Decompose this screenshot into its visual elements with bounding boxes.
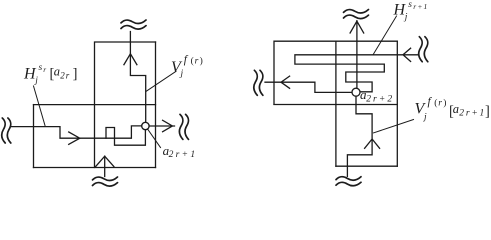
break symbol right (parens) xyxy=(419,37,428,62)
label a_2r+1 (left) xyxy=(163,143,198,160)
svg-text:r: r xyxy=(43,65,46,74)
pointer line label a2r+1 xyxy=(148,130,161,148)
svg-text:(: ( xyxy=(191,55,194,66)
svg-text:]: ] xyxy=(485,104,490,120)
arrowhead right on left strand xyxy=(69,132,80,144)
wire top strand from break to node xyxy=(356,21,358,89)
break symbol left (parens) xyxy=(254,70,263,95)
node a2r+1 circle xyxy=(142,122,149,129)
wire bottom strand entering box xyxy=(104,156,106,176)
svg-text:r: r xyxy=(438,98,442,108)
svg-text:2r+1: 2r+1 xyxy=(169,150,198,160)
wire bottom strand from node to break xyxy=(347,96,372,176)
svg-text:2r+1: 2r+1 xyxy=(459,109,486,119)
label H_j^{s_r}[a_2r] xyxy=(23,63,77,86)
label V_j^{f(r)} xyxy=(171,54,203,79)
svg-text:): ) xyxy=(200,55,203,66)
box shared right edge xyxy=(396,41,398,166)
svg-text:a: a xyxy=(54,65,60,79)
pointer line label V xyxy=(146,71,176,91)
wire left strand from break to node xyxy=(265,82,352,92)
pointer line label H' xyxy=(373,16,397,55)
break symbol right (parens) xyxy=(179,114,188,139)
box B1 upper (left diagram) left and top edges xyxy=(95,42,156,168)
node a2r+2 circle xyxy=(352,88,360,96)
horizontal divider H1 xyxy=(34,104,156,106)
svg-text:s: s xyxy=(39,63,43,73)
label V_j^{f(r)}[a_2r+1] xyxy=(415,96,490,123)
wire left strand from break to node xyxy=(11,126,142,138)
wire top strand from break to node xyxy=(130,32,145,123)
pointer line label V' xyxy=(374,120,414,133)
break symbol bottom (approx) xyxy=(336,177,361,186)
svg-text:): ) xyxy=(443,97,446,108)
arrowhead up on bottom strand xyxy=(96,156,114,166)
box shared right edge xyxy=(155,42,157,168)
break symbol top (approx) xyxy=(121,20,146,29)
arrowhead right xyxy=(163,120,173,131)
wire bottom loop from node xyxy=(106,128,145,146)
break symbol bottom (approx) xyxy=(93,177,118,186)
arrowhead up on top strand xyxy=(124,54,137,65)
box B2' bottom edge xyxy=(336,165,397,167)
svg-text:]: ] xyxy=(73,66,78,82)
svg-text:2r: 2r xyxy=(60,71,70,81)
box B1' bottom edge xyxy=(274,104,397,106)
label a_2r+2 (right) xyxy=(360,87,394,104)
arrowhead left on left strand xyxy=(281,76,290,88)
arrowhead left on right strand xyxy=(403,48,411,61)
wire node to right break xyxy=(149,125,174,127)
svg-text:2r+2: 2r+2 xyxy=(366,94,394,104)
svg-text:a: a xyxy=(453,102,459,116)
box B1' left and top edges xyxy=(274,41,397,104)
box bottom edge xyxy=(34,167,156,169)
label H_j^{s_r+1} xyxy=(393,0,429,22)
svg-text:s: s xyxy=(408,0,412,10)
wire right strand from break through boxes to node xyxy=(295,55,418,92)
arrowhead up on top strand xyxy=(350,21,364,33)
pointer line label H xyxy=(34,86,46,126)
svg-text:r: r xyxy=(195,56,199,66)
break symbol left (parens) xyxy=(2,118,11,143)
svg-text:f: f xyxy=(184,54,189,66)
box B2' left edge xyxy=(335,41,337,166)
svg-text:f: f xyxy=(428,96,433,108)
svg-text:r+1: r+1 xyxy=(413,2,428,11)
break symbol top (approx) xyxy=(344,9,369,18)
box B2 lower-left edge xyxy=(33,105,35,168)
arrowhead up on bottom strand xyxy=(365,139,380,148)
svg-text:(: ( xyxy=(434,97,437,108)
